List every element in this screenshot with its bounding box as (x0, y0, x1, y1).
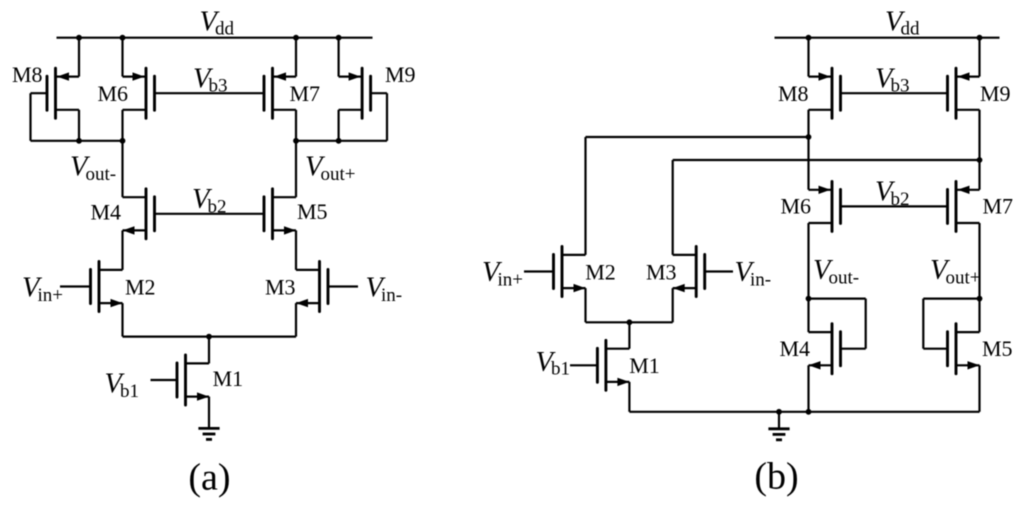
wire Vdd to M8 source (78, 38, 80, 77)
wire Vdd to M6 source (121, 38, 123, 77)
wire Vb2 gate line M4-M5 (155, 213, 265, 215)
wire M1 gate lead Vb1 (b) (570, 364, 597, 366)
wire Vdd to M7 source (295, 38, 297, 77)
svg-text:(b): (b) (754, 456, 798, 498)
wire M5 source to M3 drain (295, 230, 297, 270)
svg-text:M3: M3 (646, 260, 677, 285)
tail node wire (b) (586, 321, 673, 323)
junction Vdd/M9 (b) (977, 35, 983, 41)
wire M5 gate-drain loop (b) (923, 298, 979, 300)
transistor M3 (a), NMOS input (296, 262, 328, 312)
junction Vout+/M9 drain (a) (336, 138, 342, 144)
transistor M7 (b), PMOS cascode (948, 181, 980, 231)
wire Vout- down to M4 drain (121, 141, 123, 197)
svg-text:M6: M6 (781, 194, 812, 219)
transistor M3 (b), NMOS input (673, 247, 705, 297)
wire M8 gate loop (31, 92, 48, 94)
svg-text:b3: b3 (891, 76, 910, 97)
junction Vdd/M9 (a) (336, 35, 342, 41)
svg-text:M1: M1 (213, 366, 244, 391)
ground symbol (b) (768, 412, 789, 440)
svg-text:b1: b1 (120, 381, 139, 402)
wire M1 gate lead Vb1 (151, 379, 177, 381)
transistor M4 (a), NMOS cascode (123, 189, 155, 239)
net label Vb3 (a) (193, 63, 228, 96)
wire M4 source to M2 drain (121, 230, 123, 270)
wire M4 source down to rail (b) (807, 365, 809, 412)
wire Vdd to M9 source (b) (978, 38, 980, 77)
svg-text:in-: in- (381, 285, 402, 306)
svg-text:M9: M9 (385, 62, 416, 87)
junction Vdd/M7 (a) (293, 35, 299, 41)
junction M4 source/rail (b) (806, 409, 812, 415)
wire Vb2 gate line M6-M7 (b) (841, 205, 948, 207)
junction folded node left (b) (806, 134, 812, 140)
wire M6 drain down to Vout- (b) (807, 223, 809, 332)
wire folded node from M2 drain (b) (586, 136, 809, 138)
wire M2 gate lead Vin+ (60, 285, 91, 287)
junction Vdd/M8 (b) (806, 35, 812, 41)
svg-text:out+: out+ (946, 267, 981, 288)
svg-text:M8: M8 (778, 81, 809, 106)
svg-text:M1: M1 (629, 353, 660, 378)
transistor M5 (b), NMOS diode load (948, 324, 980, 374)
svg-text:M3: M3 (265, 275, 296, 300)
net label Vb2 (a) (192, 184, 227, 217)
wire M9 drain down to M7 source (b) (978, 110, 980, 190)
wire M5 source down to rail (b) (978, 365, 980, 412)
svg-text:(a): (a) (188, 457, 230, 499)
net label Vin- (b) (735, 257, 772, 290)
junction Vout-/M8 drain (a) (76, 138, 82, 144)
transistor M9 (b), PMOS mirror (948, 68, 980, 118)
transistor M8 (b), PMOS mirror (809, 68, 841, 118)
wire Vb3 gate line M8-M9 (b) (841, 92, 948, 94)
net label Vout- (b) (813, 255, 859, 288)
junction tail node (a) (206, 334, 212, 340)
wire M2 gate lead Vin+ (b) (524, 270, 554, 272)
svg-text:in+: in+ (38, 285, 64, 306)
junction Vdd/M6 (a) (120, 35, 126, 41)
wire Vb3 gate line M6-M7 (155, 92, 265, 94)
net label Vout+ (a) (305, 152, 356, 185)
svg-text:dd: dd (901, 19, 921, 40)
Vdd power rail (b) (775, 37, 1000, 39)
transistor M1 (a), NMOS tail source (177, 355, 209, 405)
svg-text:out+: out+ (321, 164, 356, 185)
svg-text:M8: M8 (12, 62, 43, 87)
svg-text:M4: M4 (780, 336, 811, 361)
transistor M7 (a), PMOS (264, 68, 296, 118)
junction ground (b) (776, 409, 782, 415)
wire Vout+ down to M5 drain (295, 141, 297, 197)
net label Vb1 (a) (105, 369, 140, 402)
net label Vin+ (a) (22, 273, 63, 306)
wire M2 source down to tail (b) (584, 288, 586, 322)
transistor M8 (a), PMOS (47, 68, 79, 118)
net label Vin- (a) (366, 273, 403, 306)
wire M3 source down to tail (b) (672, 288, 674, 322)
svg-text:out-: out- (829, 267, 860, 288)
wire folded node from M3 drain (b) (673, 159, 980, 161)
svg-text:b2: b2 (208, 196, 227, 217)
wire M3 gate lead Vin- (328, 285, 358, 287)
net label Vb1 (b) (536, 347, 571, 379)
Vdd power rail (a) (57, 37, 373, 39)
net label Vdd (a) (200, 6, 235, 39)
wire M7 drain down to Vout+ (b) (978, 223, 980, 332)
svg-text:M9: M9 (980, 81, 1011, 106)
svg-text:dd: dd (215, 19, 235, 40)
wire M3 gate lead Vin- (b) (705, 270, 733, 272)
svg-text:M7: M7 (290, 81, 321, 106)
wire M2 source down to tail (121, 303, 123, 337)
wire tail node to M1 drain (208, 337, 210, 364)
svg-text:M7: M7 (983, 194, 1014, 219)
wire Vdd to M8 source (b) (807, 38, 809, 77)
wire M9 drain down (338, 110, 340, 141)
bottom rail wire (b) (629, 411, 979, 413)
junction Vout+/M5 (b) (977, 296, 983, 302)
net label Vout+ (b) (930, 255, 981, 288)
svg-text:M2: M2 (585, 260, 616, 285)
ground symbol (a) (198, 427, 219, 439)
net label Vb3 (b) (875, 63, 910, 96)
junction Vdd/M8 (a) (76, 35, 82, 41)
svg-text:in-: in- (750, 269, 771, 290)
wire tail to M1 drain (b) (628, 322, 630, 348)
wire M3 source down to tail (295, 303, 297, 337)
transistor M2 (b), NMOS input (554, 247, 586, 297)
junction Vout- node (a) (120, 138, 126, 144)
node Vout+ wire (a) (296, 140, 387, 142)
wire M1 source down to bottom rail (b) (628, 382, 630, 412)
svg-text:M5: M5 (297, 199, 328, 224)
junction folded node right (b) (977, 157, 983, 163)
wire M8 drain down to M6 source (b) (807, 110, 809, 190)
node Vout- wire (a) (31, 140, 123, 142)
svg-text:M2: M2 (125, 275, 156, 300)
transistor M1 (b), NMOS tail source (597, 340, 629, 390)
transistor M9 (a), PMOS (339, 68, 371, 118)
transistor M6 (a), PMOS (123, 68, 155, 118)
junction Vout+ node (a) (293, 138, 299, 144)
transistor M6 (b), PMOS cascode (809, 181, 841, 231)
svg-text:M4: M4 (91, 199, 122, 224)
net label Vin+ (b) (482, 257, 523, 290)
net label Vout- (a) (70, 152, 116, 185)
wire M8 drain down (78, 110, 80, 141)
tail node wire (a) (123, 336, 297, 338)
svg-text:M5: M5 (982, 336, 1013, 361)
svg-text:out-: out- (86, 164, 117, 185)
svg-text:M6: M6 (98, 81, 129, 106)
wire M4 gate-drain loop (b) (809, 298, 866, 300)
svg-text:b2: b2 (891, 189, 910, 210)
junction tail node (b) (627, 319, 633, 325)
svg-text:b1: b1 (551, 358, 570, 379)
svg-text:in+: in+ (498, 269, 524, 290)
transistor M5 (a), NMOS cascode (264, 189, 296, 239)
transistor M4 (b), NMOS diode load (809, 324, 841, 374)
net label Vb2 (b) (875, 177, 910, 210)
wire M1 source to ground (208, 397, 210, 428)
junction Vout-/M4 (b) (806, 296, 812, 302)
wire M7 drain down to Vout+ node (295, 110, 297, 141)
svg-text:b3: b3 (209, 76, 228, 97)
wire Vdd to M9 source (338, 38, 340, 77)
net label Vdd (b) (885, 6, 920, 39)
wire M9 gate loop (371, 92, 387, 94)
wire M6 drain down to Vout- node (121, 110, 123, 141)
transistor M2 (a), NMOS input (91, 262, 123, 312)
